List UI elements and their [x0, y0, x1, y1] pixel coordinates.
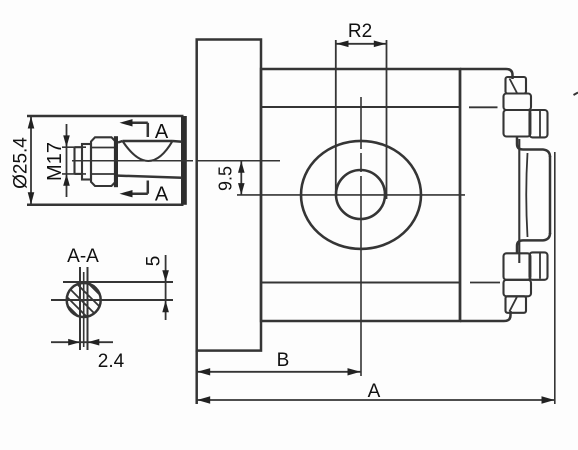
svg-text:9.5: 9.5	[216, 166, 236, 191]
shaft bottom edge	[118, 176, 182, 178]
svg-text:B: B	[277, 350, 290, 371]
section hatch	[58, 264, 114, 328]
body inner line top	[261, 106, 460, 108]
shaft taper top edge	[118, 141, 123, 143]
section horizontal centerline	[51, 299, 173, 301]
svg-text:Ø25.4: Ø25.4	[11, 137, 32, 189]
bottom port centerline dash	[470, 282, 500, 284]
svg-text:R2: R2	[348, 21, 372, 42]
bottom port neck	[506, 296, 527, 313]
key side left	[79, 267, 81, 350]
R2 extension line right	[386, 40, 388, 199]
dim 5 line	[165, 255, 167, 320]
dim B extension left	[195, 351, 198, 404]
pump body	[261, 69, 460, 321]
bottom port neck chamfer	[510, 297, 518, 312]
top port centerline dash	[469, 106, 498, 108]
shaft top edge after keyway	[173, 140, 183, 143]
svg-text:2.4: 2.4	[98, 351, 125, 372]
top port hex band	[504, 94, 532, 111]
dimension line dia 25.4	[30, 117, 32, 204]
large bore ellipse	[301, 141, 421, 249]
bottom port main body	[504, 253, 531, 279]
flange front plate	[197, 40, 261, 351]
detail box bottom edge	[27, 204, 184, 207]
dim B line	[197, 371, 361, 373]
dim A line	[197, 399, 555, 401]
tiny mark right edge	[574, 93, 578, 96]
top port neck chamfer	[510, 79, 518, 94]
dim A extension right	[554, 152, 556, 404]
svg-text:5: 5	[144, 256, 165, 267]
section arrow A top	[124, 122, 148, 125]
svg-text:A: A	[155, 121, 169, 143]
svg-text:A: A	[368, 381, 381, 402]
svg-text:A: A	[155, 184, 169, 206]
dimension line M17	[66, 124, 68, 197]
washer against face dark	[114, 136, 118, 187]
section A-A circle	[67, 283, 101, 317]
nut M17	[91, 137, 116, 186]
R2 extension line left	[335, 40, 337, 192]
cover bottom edge	[460, 311, 511, 321]
nut chamfer line lower	[91, 173, 116, 175]
section arrow A bottom	[124, 192, 148, 195]
key side right	[87, 267, 89, 350]
keyway chord	[123, 140, 173, 143]
shaft centerline	[72, 160, 146, 162]
rear cover joint	[459, 69, 462, 321]
bottom port boss inner line	[539, 253, 541, 278]
nut chamfer line upper	[91, 147, 116, 149]
section vertical centerline	[83, 272, 85, 347]
cover mid outer edge	[549, 156, 552, 234]
bottom port hex band	[504, 280, 532, 297]
top port main body	[504, 110, 531, 137]
keyway arc	[123, 141, 173, 161]
keyway flat line	[63, 281, 173, 283]
top port right boss	[530, 110, 548, 137]
top port boss inner line	[539, 111, 541, 137]
9.5 upper arrow	[240, 161, 242, 195]
top port neck	[506, 77, 527, 94]
cover mid inner vertical	[518, 139, 520, 263]
bottom port foot upper	[517, 233, 550, 253]
svg-text:M17: M17	[44, 142, 66, 181]
shaft end thick section plane	[181, 116, 187, 205]
small bore circle	[336, 170, 385, 219]
detail box top edge	[27, 115, 184, 118]
cover mid curvy line	[526, 153, 527, 237]
bottom port right boss	[530, 252, 548, 279]
thread section shaft M17	[73, 147, 75, 174]
body inner line bottom	[261, 281, 460, 283]
dim 2.4 line	[51, 341, 113, 343]
cover top edge	[460, 69, 513, 79]
top port foot	[517, 137, 550, 158]
svg-text:A-A: A-A	[67, 246, 99, 267]
washer	[82, 144, 91, 180]
M17 extension ticks	[62, 146, 86, 148]
gear vertical centerline	[360, 97, 362, 149]
gear horizontal centerline	[237, 194, 465, 196]
R2 dimension line	[336, 43, 387, 45]
